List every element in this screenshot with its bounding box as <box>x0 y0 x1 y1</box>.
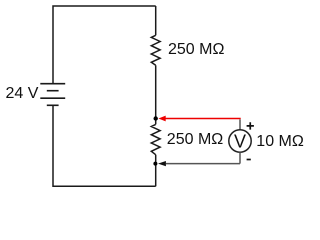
node A junction dot top <box>154 116 158 120</box>
resistor R1 zigzag <box>151 35 160 65</box>
battery B1 plate short upper <box>47 90 59 92</box>
svg-text:250 MΩ: 250 MΩ <box>167 131 223 148</box>
battery B1 plate long lower <box>40 97 65 99</box>
svg-text:250 MΩ: 250 MΩ <box>168 41 224 58</box>
gray probe lead wire (-) <box>166 163 240 165</box>
resistor R2 zigzag <box>151 124 160 154</box>
wire right bottom segment <box>155 155 157 187</box>
wire right middle segment <box>155 65 157 124</box>
node B junction dot bottom <box>153 162 157 166</box>
red probe arrowhead at node A <box>158 116 165 122</box>
battery B1 24 V plate long top <box>40 83 65 85</box>
wire top-left loop (left, top, bottom sides) <box>53 6 156 186</box>
voltmeter bottom lead stub <box>239 152 241 163</box>
voltmeter U1 circle <box>229 130 251 152</box>
black probe arrowhead at node B <box>158 161 166 166</box>
voltmeter top lead stub <box>239 119 241 129</box>
svg-text:10 MΩ: 10 MΩ <box>256 133 304 150</box>
svg-text:24 V: 24 V <box>6 85 39 102</box>
polarity mark - <box>247 159 251 161</box>
red probe lead wire (+) <box>166 118 241 120</box>
battery B1 plate short bottom <box>47 104 59 106</box>
svg-text:V: V <box>234 131 246 151</box>
wire right top segment <box>155 6 157 35</box>
polarity mark + <box>247 122 254 129</box>
